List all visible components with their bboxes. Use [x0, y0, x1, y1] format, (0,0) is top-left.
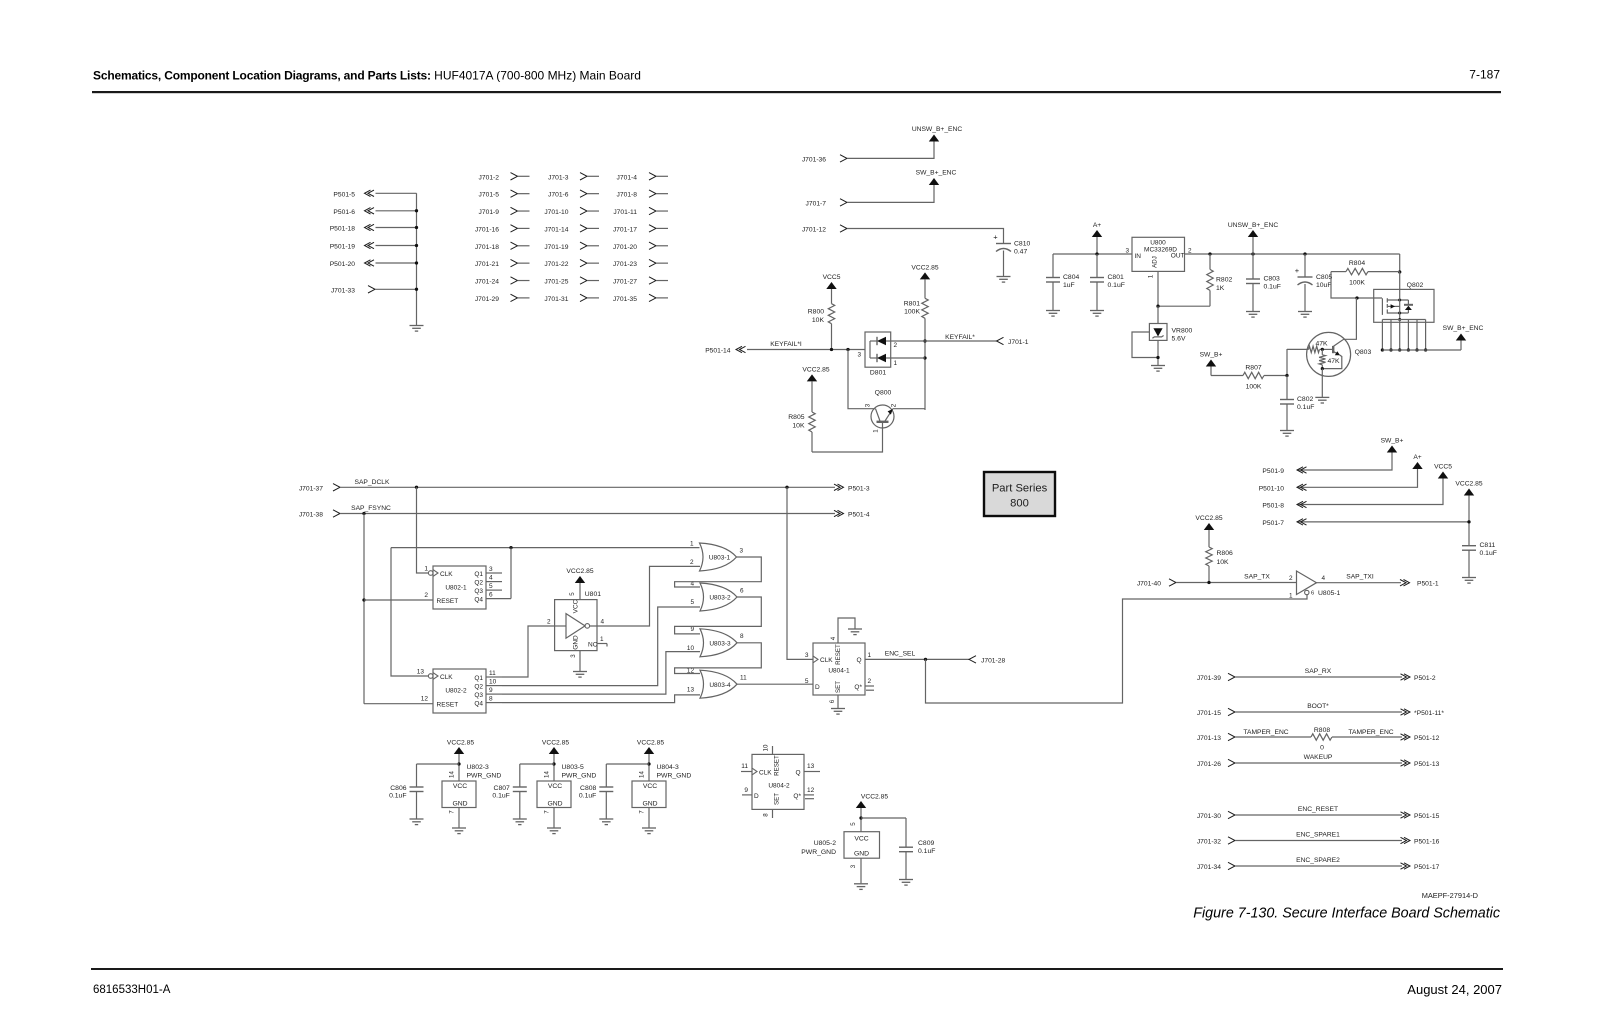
- capacitor C807: [492, 764, 554, 819]
- ground: [1462, 578, 1476, 584]
- svg-text:P501-18: P501-18: [330, 226, 356, 233]
- wire net WAKEUP: [1235, 754, 1402, 763]
- wire net ENC_SEL: [865, 651, 969, 662]
- wire U802-2 Q2 to U803-2 pin5: [502, 607, 700, 686]
- transistor Q803: [1287, 332, 1371, 376]
- resistor R802: [1207, 254, 1233, 306]
- wire U801 pin3 to ground: [573, 651, 587, 678]
- svg-text:+: +: [1295, 266, 1300, 275]
- svg-text:J701-16: J701-16: [475, 226, 499, 233]
- svg-text:4: 4: [489, 575, 493, 582]
- wire SAP_DCLK to U804-1 CLK: [787, 487, 813, 659]
- svg-text:1: 1: [894, 360, 898, 367]
- svg-text:C804: C804: [1063, 274, 1079, 281]
- svg-text:Part Series: Part Series: [992, 483, 1048, 495]
- svg-text:SAP_TXI: SAP_TXI: [1346, 574, 1374, 581]
- svg-text:R806: R806: [1217, 550, 1233, 557]
- svg-text:SET: SET: [835, 681, 842, 693]
- figure caption: [1193, 906, 1500, 922]
- connector J701-36: [802, 155, 847, 164]
- wire: [847, 141, 934, 158]
- svg-text:J701-10: J701-10: [544, 209, 568, 216]
- wire A+ input net: [1053, 237, 1132, 256]
- svg-text:5: 5: [805, 678, 809, 685]
- svg-text:J701-21: J701-21: [475, 261, 499, 268]
- svg-text:PWR_GND: PWR_GND: [801, 849, 836, 856]
- header rule: [92, 91, 1501, 93]
- connector J701-19: [544, 242, 599, 251]
- svg-text:P501-20: P501-20: [330, 261, 356, 268]
- wire U803-1 out to U803-2 pin4: [675, 557, 762, 587]
- svg-text:Q2: Q2: [474, 683, 483, 690]
- svg-text:IN: IN: [1135, 253, 1142, 260]
- svg-text:U803-3: U803-3: [709, 641, 731, 648]
- svg-text:J701-40: J701-40: [1137, 581, 1161, 588]
- svg-text:R804: R804: [1349, 260, 1365, 267]
- svg-text:VCC2.85: VCC2.85: [911, 265, 938, 272]
- svg-text:0: 0: [1320, 745, 1324, 752]
- ground: [410, 326, 424, 332]
- transistor Q800: [865, 390, 898, 433]
- svg-text:Q1: Q1: [474, 675, 483, 682]
- svg-text:J701-31: J701-31: [544, 296, 568, 303]
- svg-text:KEYFAIL*: KEYFAIL*: [945, 334, 975, 341]
- connector J701-24: [475, 277, 530, 286]
- svg-text:6816533H01-A: 6816533H01-A: [93, 984, 171, 996]
- svg-text:J701-6: J701-6: [548, 192, 569, 199]
- svg-text:C802: C802: [1297, 396, 1313, 403]
- flip-flop U804-1: [805, 636, 874, 708]
- svg-text:6: 6: [489, 592, 493, 599]
- connector J701-7: [806, 199, 847, 208]
- svg-text:13: 13: [417, 669, 425, 676]
- svg-text:5: 5: [489, 583, 493, 590]
- power VCC2.85 right: [1455, 481, 1482, 496]
- capacitor C811: [1462, 542, 1497, 577]
- svg-text:2: 2: [547, 619, 551, 626]
- svg-text:Q*: Q*: [793, 793, 801, 800]
- svg-text:100K: 100K: [904, 309, 920, 316]
- svg-text:10: 10: [687, 645, 695, 652]
- capacitor C803: [1246, 254, 1281, 311]
- svg-text:10uF: 10uF: [1316, 282, 1332, 289]
- connector J701-37: [299, 484, 340, 493]
- wire to P501-10: [1297, 469, 1418, 487]
- svg-text:100K: 100K: [1246, 384, 1262, 391]
- diode D801: [857, 332, 897, 377]
- connector J701-12: [802, 225, 847, 234]
- svg-text:P501-2: P501-2: [1414, 675, 1436, 682]
- wire: [1003, 251, 1005, 277]
- svg-text:J701-7: J701-7: [806, 200, 827, 207]
- svg-text:10: 10: [763, 744, 770, 751]
- svg-text:J701-9: J701-9: [479, 209, 500, 216]
- pin P501-8: [1262, 501, 1306, 509]
- wire gate node down to Q803: [1334, 298, 1357, 346]
- svg-text:0.1uF: 0.1uF: [492, 792, 509, 799]
- pin P501-3: [834, 484, 870, 492]
- pin P501-16: [1401, 837, 1440, 845]
- svg-text:J701-30: J701-30: [1197, 813, 1221, 820]
- connector J701-30: [1197, 811, 1235, 820]
- svg-text:P501-13: P501-13: [1414, 761, 1440, 768]
- svg-text:Q3: Q3: [474, 692, 483, 699]
- svg-text:RESET: RESET: [437, 702, 459, 709]
- connector J701-11: [613, 207, 668, 216]
- wire U802-2 Q4 to U803-4 pin13: [502, 695, 700, 703]
- svg-text:0.1uF: 0.1uF: [1108, 282, 1125, 289]
- svg-text:1: 1: [600, 636, 604, 643]
- svg-text:J701-39: J701-39: [1197, 675, 1221, 682]
- wire U802-2 Q1 to U801 pin2: [502, 626, 555, 677]
- svg-text:U802-3: U802-3: [467, 764, 490, 771]
- power VCC2.85 for R805: [802, 366, 829, 381]
- wire: [847, 229, 1004, 244]
- connector J701-5: [479, 190, 530, 199]
- connector J701-1: [997, 337, 1029, 346]
- ground: [1280, 431, 1294, 437]
- svg-text:2: 2: [868, 678, 872, 685]
- power VCC2.85 for R801: [911, 265, 938, 280]
- power SW_B+_ENC: [916, 170, 957, 186]
- svg-text:P501-14: P501-14: [705, 348, 731, 355]
- svg-text:7: 7: [544, 810, 551, 814]
- power SW_B+: [1200, 352, 1223, 376]
- svg-text:D: D: [754, 793, 759, 800]
- connector J701-28: [969, 656, 1005, 665]
- svg-text:VCC5: VCC5: [823, 274, 841, 281]
- svg-text:P501-4: P501-4: [848, 512, 870, 519]
- svg-text:1: 1: [868, 652, 872, 659]
- svg-text:VCC2.85: VCC2.85: [447, 740, 474, 747]
- svg-text:VCC: VCC: [573, 599, 580, 613]
- svg-text:J701-37: J701-37: [299, 485, 323, 492]
- capacitor C810: [993, 233, 1030, 256]
- svg-text:GND: GND: [452, 801, 467, 808]
- svg-text:47K: 47K: [1328, 358, 1341, 365]
- svg-text:RESET: RESET: [835, 644, 842, 665]
- Q802 source fingers: [1381, 320, 1461, 352]
- pin J701-33: [331, 286, 417, 295]
- svg-text:4: 4: [601, 619, 605, 626]
- svg-text:10K: 10K: [1217, 559, 1230, 566]
- connector J701-18: [475, 242, 530, 251]
- wire Q800 emitter to R805: [812, 423, 883, 452]
- connector J701-17: [613, 225, 668, 234]
- zener VR800: [1149, 306, 1192, 342]
- svg-text:P501-17: P501-17: [1414, 864, 1440, 871]
- pin P501-7: [1262, 519, 1306, 527]
- svg-text:J701-17: J701-17: [613, 226, 637, 233]
- svg-text:1: 1: [873, 429, 880, 433]
- svg-text:VCC2.85: VCC2.85: [566, 568, 593, 575]
- svg-text:2: 2: [1289, 575, 1293, 582]
- svg-text:J701-27: J701-27: [613, 279, 637, 286]
- svg-text:SAP_FSYNC: SAP_FSYNC: [351, 505, 391, 512]
- svg-text:SW_B+: SW_B+: [1381, 438, 1404, 445]
- ground: [513, 819, 527, 825]
- svg-text:R800: R800: [808, 309, 824, 316]
- svg-text:11: 11: [741, 763, 748, 770]
- svg-text:CLK: CLK: [759, 769, 772, 776]
- svg-text:7: 7: [449, 810, 456, 814]
- svg-text:0.47: 0.47: [1014, 249, 1027, 256]
- flip-flop U802-1: [424, 566, 502, 610]
- svg-text:J701-38: J701-38: [299, 512, 323, 519]
- svg-text:9: 9: [744, 787, 748, 794]
- svg-text:P501-16: P501-16: [1414, 839, 1440, 846]
- ground: [1315, 369, 1329, 403]
- svg-text:C809: C809: [918, 840, 934, 847]
- svg-text:RESET: RESET: [774, 755, 781, 776]
- svg-text:5: 5: [569, 592, 576, 596]
- svg-text:Q1: Q1: [474, 571, 483, 578]
- wire U803-4 out to U804-1 D: [737, 683, 813, 685]
- svg-text:10: 10: [489, 679, 497, 686]
- wire U803-3 out to U803-4 pin12: [675, 643, 762, 674]
- svg-text:0.1uF: 0.1uF: [1264, 284, 1281, 291]
- IC U804-3 PWR_GND: [632, 764, 691, 828]
- svg-text:5: 5: [690, 599, 694, 606]
- pin P501-18: [330, 224, 417, 232]
- wire net KEYFAIL*I: [747, 341, 865, 351]
- connector J701-3: [548, 173, 599, 182]
- connector J701-15: [1197, 708, 1235, 717]
- flip-flop U804-2: [741, 744, 820, 818]
- connector J701-4: [617, 173, 668, 182]
- svg-text:0.1uF: 0.1uF: [918, 848, 935, 855]
- svg-text:J701-29: J701-29: [475, 296, 499, 303]
- wire net BOOT*: [1235, 703, 1402, 712]
- wire net SAP_DCLK: [340, 479, 835, 489]
- connector J701-25: [544, 277, 599, 286]
- power VCC5: [823, 274, 841, 289]
- ground: [1090, 311, 1104, 317]
- svg-text:3: 3: [865, 403, 872, 407]
- svg-text:J701-35: J701-35: [613, 296, 637, 303]
- svg-text:5: 5: [850, 822, 857, 826]
- power SW_B+ right: [1381, 438, 1404, 453]
- svg-text:CLK: CLK: [440, 571, 453, 578]
- svg-text:6: 6: [829, 699, 836, 703]
- svg-text:TAMPER_ENC: TAMPER_ENC: [1348, 729, 1393, 736]
- ground: [642, 828, 656, 834]
- part series box: [984, 472, 1055, 516]
- svg-text:J701-34: J701-34: [1197, 864, 1221, 871]
- pin P501-5: [333, 190, 416, 198]
- svg-text:8: 8: [763, 813, 770, 817]
- svg-text:7-187: 7-187: [1469, 68, 1500, 82]
- wire ground bus: [415, 193, 418, 325]
- svg-text:4: 4: [1322, 575, 1326, 582]
- svg-text:GND: GND: [854, 850, 869, 857]
- connector J701-40: [1137, 579, 1176, 588]
- svg-text:1: 1: [424, 566, 428, 573]
- svg-text:8: 8: [740, 633, 744, 640]
- svg-text:J701-25: J701-25: [544, 279, 568, 286]
- wire U802-1 Q4 net to U803-1 pin1 and U802-2 CLK: [391, 546, 700, 676]
- wire net SAP_RX: [1235, 668, 1402, 677]
- svg-text:PWR_GND: PWR_GND: [467, 772, 502, 779]
- svg-text:2: 2: [894, 342, 898, 349]
- svg-text:6: 6: [740, 587, 744, 594]
- svg-text:J701-28: J701-28: [981, 657, 1005, 664]
- svg-text:0.1uF: 0.1uF: [1480, 550, 1497, 557]
- svg-text:Q3: Q3: [474, 588, 483, 595]
- svg-text:TAMPER_ENC: TAMPER_ENC: [1243, 729, 1288, 736]
- svg-text:R805: R805: [788, 414, 804, 421]
- svg-text:U804-3: U804-3: [657, 764, 680, 771]
- svg-text:2: 2: [690, 559, 694, 566]
- svg-text:U805-2: U805-2: [814, 840, 837, 847]
- power VCC2.85 for U802-3: [447, 740, 474, 782]
- svg-text:P501-15: P501-15: [1414, 813, 1440, 820]
- svg-text:UNSW_B+_ENC: UNSW_B+_ENC: [912, 126, 963, 133]
- ground: [1046, 311, 1060, 317]
- svg-text:Q4: Q4: [474, 597, 483, 604]
- svg-text:C811: C811: [1480, 542, 1496, 549]
- connector J701-10: [544, 207, 599, 216]
- pin P501-14: [705, 346, 745, 354]
- pin P501-9: [1262, 467, 1306, 475]
- svg-text:Q4: Q4: [474, 701, 483, 708]
- connector J701-32: [1197, 837, 1235, 846]
- svg-text:14: 14: [639, 771, 646, 778]
- svg-text:VCC: VCC: [643, 783, 657, 790]
- drawing number MAEPF-27914-D: [1422, 891, 1478, 900]
- wire net SAP_TXI: [1317, 574, 1402, 583]
- pin P501-6: [333, 208, 416, 216]
- svg-text:1uF: 1uF: [1063, 282, 1075, 289]
- svg-text:*P501-11*: *P501-11*: [1414, 710, 1444, 717]
- svg-text:1K: 1K: [1216, 285, 1225, 292]
- svg-text:ADJ: ADJ: [1152, 256, 1159, 268]
- svg-text:J701-13: J701-13: [1197, 735, 1221, 742]
- svg-text:J701-5: J701-5: [479, 192, 500, 199]
- svg-text:9: 9: [489, 687, 493, 694]
- or-gate U803-2: [690, 580, 744, 611]
- svg-text:U802-1: U802-1: [445, 585, 467, 592]
- svg-text:VCC2.85: VCC2.85: [1455, 481, 1482, 488]
- svg-text:SW_B+: SW_B+: [1200, 352, 1223, 359]
- capacitor C808: [579, 764, 649, 819]
- ground: [452, 828, 466, 834]
- connector J701-16: [475, 225, 530, 234]
- power VCC2.85 for U801: [566, 568, 593, 600]
- power A+ right: [1412, 454, 1422, 469]
- svg-text:100K: 100K: [1349, 280, 1365, 287]
- wire U800 OUT net: [1185, 252, 1402, 273]
- svg-text:12: 12: [421, 696, 429, 703]
- svg-text:1: 1: [1289, 593, 1293, 600]
- svg-text:WAKEUP: WAKEUP: [1304, 754, 1333, 761]
- svg-text:J701-32: J701-32: [1197, 839, 1221, 846]
- wire U803-2 out to U803-3 pin9: [675, 597, 762, 634]
- svg-text:VCC2.85: VCC2.85: [861, 794, 888, 801]
- pin *P501-11*: [1401, 709, 1445, 717]
- svg-text:Q803: Q803: [1355, 349, 1372, 356]
- svg-text:SAP_RX: SAP_RX: [1305, 668, 1332, 675]
- svg-text:2: 2: [891, 403, 898, 407]
- svg-text:Schematics, Component Location: Schematics, Component Location Diagrams,…: [93, 69, 641, 83]
- svg-text:3: 3: [857, 352, 861, 359]
- svg-text:11: 11: [740, 675, 747, 682]
- connector J701-34: [1197, 862, 1235, 871]
- svg-text:U805-1: U805-1: [1318, 590, 1341, 597]
- svg-text:5.6V: 5.6V: [1172, 336, 1186, 343]
- svg-text:VCC: VCC: [548, 783, 562, 790]
- svg-text:J701-11: J701-11: [613, 209, 637, 216]
- or-gate U803-4: [687, 668, 747, 699]
- svg-text:3: 3: [1125, 248, 1129, 255]
- wire: [847, 185, 934, 203]
- pin P501-17: [1401, 863, 1440, 871]
- svg-text:SW_B+_ENC: SW_B+_ENC: [1443, 325, 1484, 332]
- svg-text:P501-19: P501-19: [330, 244, 356, 251]
- or-gate U803-3: [687, 626, 744, 657]
- wire net ENC_RESET: [1235, 806, 1402, 815]
- svg-text:ENC_SPARE1: ENC_SPARE1: [1296, 832, 1340, 839]
- svg-text:U804-1: U804-1: [828, 667, 850, 674]
- svg-text:P501-7: P501-7: [1262, 520, 1284, 527]
- svg-text:J701-22: J701-22: [544, 261, 568, 268]
- wire net ENC_SPARE2: [1235, 857, 1402, 866]
- pin P501-19: [330, 242, 417, 250]
- svg-text:Q*: Q*: [854, 684, 862, 691]
- capacitor C804: [1046, 254, 1079, 310]
- svg-text:9: 9: [690, 626, 694, 633]
- svg-text:14: 14: [544, 771, 551, 778]
- svg-text:J701-2: J701-2: [479, 174, 500, 181]
- connector J701-14: [544, 225, 599, 234]
- svg-text:10K: 10K: [792, 423, 805, 430]
- pin P501-20: [330, 260, 417, 268]
- svg-text:J701-23: J701-23: [613, 261, 637, 268]
- wire SAP_FSYNC to RESET pins: [362, 514, 433, 704]
- wire R804 to gate node: [1331, 272, 1382, 300]
- svg-text:VCC2.85: VCC2.85: [637, 740, 664, 747]
- capacitor C802: [1280, 376, 1314, 431]
- svg-text:Q: Q: [795, 769, 800, 776]
- svg-text:U803-2: U803-2: [709, 595, 731, 602]
- svg-text:UNSW_B+_ENC: UNSW_B+_ENC: [1228, 222, 1279, 229]
- svg-text:8: 8: [489, 696, 493, 703]
- page number: [1469, 68, 1500, 82]
- resistor R807: [1211, 365, 1287, 391]
- svg-text:C808: C808: [580, 785, 596, 792]
- resistor R801: [904, 279, 928, 318]
- svg-text:MAEPF-27914-D: MAEPF-27914-D: [1422, 891, 1478, 900]
- header title: [93, 69, 641, 83]
- svg-text:R807: R807: [1245, 365, 1261, 372]
- capacitor C801: [1090, 254, 1125, 310]
- pin P501-10: [1259, 484, 1307, 492]
- svg-text:August 24, 2007: August 24, 2007: [1407, 982, 1502, 997]
- IC U802-3 PWR_GND: [442, 764, 501, 828]
- svg-text:Q800: Q800: [875, 390, 892, 397]
- svg-text:3: 3: [805, 652, 809, 659]
- svg-text:3: 3: [570, 654, 577, 658]
- svg-text:J701-3: J701-3: [548, 174, 569, 181]
- svg-text:3: 3: [489, 566, 493, 573]
- svg-text:J701-1: J701-1: [1008, 339, 1029, 346]
- svg-text:U802-2: U802-2: [445, 688, 467, 695]
- svg-text:PWR_GND: PWR_GND: [657, 772, 692, 779]
- power VCC2.85 for U805-2: [856, 794, 889, 832]
- svg-text:J701-12: J701-12: [802, 227, 826, 234]
- footer rule: [91, 968, 1503, 970]
- svg-text:R808: R808: [1314, 727, 1330, 734]
